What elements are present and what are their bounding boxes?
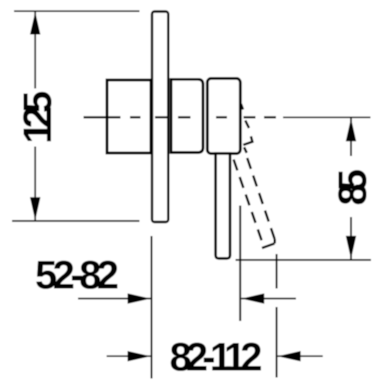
dimension 82-112 : arrowhead pointing left (278, 351, 301, 361)
svg-text:125: 125 (16, 91, 60, 144)
dimension 82-112 : left dimension line (107, 355, 151, 357)
dimension 52-82 : left arrowhead (points left) (241, 293, 264, 303)
svg-text:52-82: 52-82 (35, 254, 119, 298)
handle hub (207, 78, 240, 153)
dashed lever top hook (243, 136, 252, 145)
dimension 52-82 : right dimension line (241, 298, 296, 300)
dashed lever left edge (234, 160, 262, 242)
dimension 85 : dimension line (350, 118, 352, 156)
valve body (rough-in box behind wall) (107, 80, 151, 153)
dimension 125 : down arrowhead (30, 197, 40, 220)
svg-text:85: 85 (331, 169, 375, 206)
dashed lever (rotated position) : hub edge dashes (234, 104, 275, 248)
dimension 125 : up arrowhead (30, 12, 40, 35)
dimension 85 : top extension line (centerline extension) (283, 116, 371, 118)
dimension 82-112 : arrowhead pointing right (128, 351, 151, 361)
dimension 85 : down arrowhead (346, 236, 356, 259)
lever handle (vertical, solid position) (216, 154, 230, 259)
wall plate (escutcheon) (152, 12, 168, 223)
lever tip extension line (276, 254, 278, 289)
dashed lever neck dash (244, 147, 247, 153)
dimension 82-112 : right dimension line (278, 355, 323, 357)
dimension 125 : bottom extension line (12, 220, 140, 222)
dimension 52-82 : left dimension line (78, 298, 151, 300)
dimension 85 : up arrowhead (346, 118, 356, 141)
dashed lever bottom cap (262, 244, 275, 249)
centerline (dash-dot axis) (84, 116, 277, 118)
svg-text:82-112: 82-112 (170, 335, 263, 379)
dimension 52-82 : right arrowhead (points right) (128, 293, 151, 303)
wall plane extension line (151, 236, 153, 379)
sleeve collar (171, 79, 203, 152)
dimension 125 : top extension line (14, 10, 140, 12)
hub front extension line (239, 206, 241, 322)
dimension 125 : dimension line (34, 12, 36, 89)
dimension 85 : bottom extension line (236, 259, 372, 261)
dashed lever right edge (247, 158, 275, 240)
